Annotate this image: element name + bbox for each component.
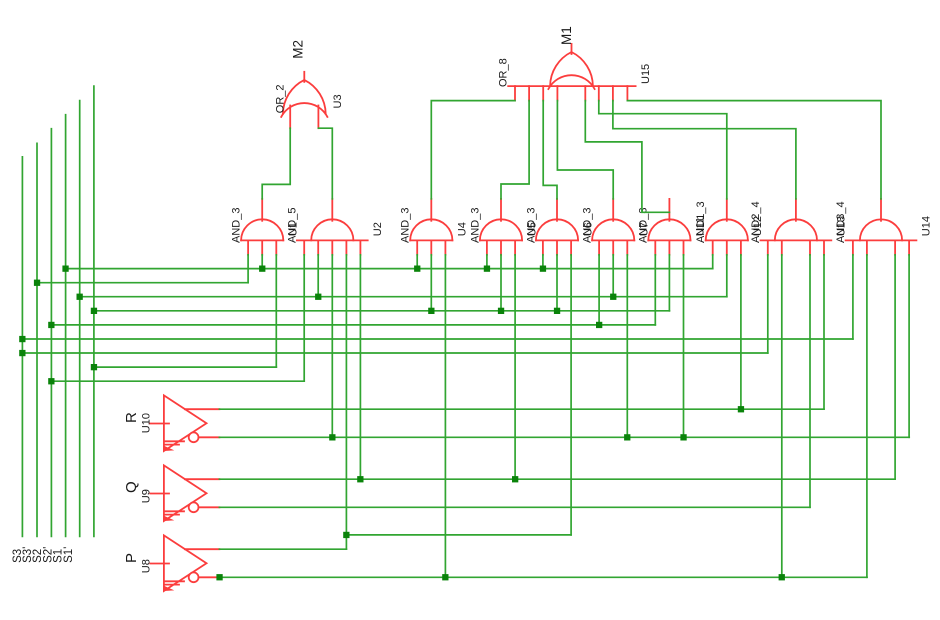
junction [484,266,490,272]
wire row 4 [94,310,670,312]
wire pin drop [500,255,502,311]
wire net R (direct) row [219,408,824,410]
AND gate U12 (AND1_3) [706,199,748,255]
junction [624,434,630,440]
wire U4 output to U15 pin1 [431,101,515,199]
svg-text:U8: U8 [141,559,153,573]
svg-text:U2: U2 [372,222,384,236]
junction [738,406,744,412]
junction [19,336,25,342]
wire row 2 [37,282,248,284]
wire U2 output to U3 pin2 [318,128,332,199]
junction [343,532,349,538]
wire U12 output to U15 pin6 [599,101,727,199]
wire: input rail S2' [65,115,67,537]
junction [779,574,785,580]
wire net P branch row [346,534,571,536]
wire pin drop [416,255,418,269]
svg-text:U3: U3 [332,94,344,108]
wire row 5 [51,324,655,326]
AND gate U5 (AND_3) [480,199,522,255]
junction [554,308,560,314]
wire pin drop [809,255,811,507]
AND gate U4 (AND_3) [410,199,452,255]
wire net Q' (inverted) row [219,506,810,508]
buffer/inverter U8 (input P) [150,535,219,591]
junction [610,294,616,300]
wire: input rail S1' [93,86,95,536]
input pin 2 of U3 [317,106,319,129]
input pin 8 of U15 [626,86,628,101]
wire: input rail S1 [79,101,81,537]
wire net R' (inverted) row [219,436,909,438]
svg-text:M2: M2 [290,40,305,59]
AND gate U6 (AND_3) [536,199,578,255]
wire pin drop [740,255,742,409]
wire U1 output to U3 pin1 [262,128,290,199]
wire pin drop [767,255,769,353]
junction [357,476,363,482]
wire pin drop [261,255,263,269]
svg-text:AND3_4: AND3_4 [835,201,847,243]
input pin 1 of U3 [289,106,291,129]
wire pin drop [852,255,854,339]
wire row 1 [66,268,713,270]
wire pin drop [654,255,656,325]
wire pin drop [444,255,446,578]
junction [540,266,546,272]
OR gate U3 (OR_2) [281,72,327,117]
svg-text:AND_3: AND_3 [525,208,537,243]
junction [62,266,68,272]
AND gate U14 (AND3_4) [846,199,917,255]
svg-text:U14: U14 [921,216,933,236]
junction [91,308,97,314]
wire pin drop [823,255,825,409]
junction [216,574,222,580]
buffer/inverter U10 (input R) [150,395,219,451]
wire pin drop [712,255,714,269]
wire pin drop [345,255,347,549]
wire row 8 [94,366,276,368]
svg-text:U10: U10 [141,413,153,433]
svg-text:AND2_4: AND2_4 [750,201,762,243]
wire U11 output to U15 pin5 [585,101,669,213]
wire pin drop [486,255,488,269]
wire pin drop [866,255,868,578]
junction [315,294,321,300]
svg-text:Q: Q [123,481,140,493]
junction [414,266,420,272]
svg-text:OR_2: OR_2 [274,84,286,113]
wire pin drop [683,255,685,437]
junction [680,434,686,440]
svg-text:U15: U15 [640,64,652,84]
wire pin drop [781,255,783,578]
wire U13 output to U15 pin7 [613,101,796,199]
wire pin drop [514,255,516,479]
input pin 6 of U15 [598,86,600,101]
svg-text:AND_5: AND_5 [286,208,298,243]
svg-text:U4: U4 [457,222,469,236]
AND gate U7 (AND_3) [592,199,634,255]
wire row 3 [80,296,727,298]
wire row 7 [22,352,767,354]
svg-text:P: P [123,553,140,563]
wire pin drop [275,255,277,367]
wire net P' (inverted) row [219,576,867,578]
input pin 4 of U15 [556,86,558,101]
wire: input rail S2 [50,129,52,537]
AND gate U13 (AND2_4) [761,199,832,255]
junction [498,308,504,314]
junction [91,364,97,370]
wire pin drop [317,255,319,297]
wire pin drop [894,255,896,479]
wire row 6 [22,338,853,340]
wire pin drop [612,255,614,297]
wire pin drop [430,255,432,311]
wire U14 output to U15 pin8 [627,101,881,199]
wire pin drop [359,255,361,479]
junction [48,322,54,328]
wire: input rail S3' [36,143,38,536]
wire pin drop [331,255,333,437]
svg-text:U9: U9 [141,489,153,503]
junction [48,378,54,384]
junction [512,476,518,482]
svg-text:R: R [123,412,140,423]
OR gate U15 (OR_8) [548,44,594,89]
buffer/inverter U9 (input Q) [150,465,219,521]
junction [596,322,602,328]
AND gate U1 (AND_3) [241,199,283,255]
input pin 5 of U15 [584,86,586,101]
svg-text:S1': S1' [63,547,75,563]
wire U6 output to U15 pin3 [543,101,557,199]
wire pin drop [908,255,910,437]
wire pin drop [598,255,600,325]
svg-text:AND1_3: AND1_3 [695,201,707,243]
wire pin drop [303,255,305,381]
wire pin drop [668,255,670,311]
junction [329,434,335,440]
AND gate U2 (AND_5) [297,199,368,255]
wire net P (direct) row [219,548,346,550]
input pin 7 of U15 [612,86,614,101]
AND gate U11 (AND_3) [648,199,690,255]
input pin 2 of U15 [528,86,530,101]
junction [19,350,25,356]
junction [428,308,434,314]
svg-text:AND_3: AND_3 [400,208,412,243]
wire pin drop [542,255,544,269]
input pin 1 of U15 [514,86,516,101]
junction [259,266,265,272]
svg-text:AND_3: AND_3 [582,208,594,243]
wire pin drop [570,255,572,535]
wire row 9 [51,380,304,382]
wire U7 output to U15 pin4 [557,101,613,199]
svg-text:M1: M1 [559,26,574,45]
wire pin drop [726,255,728,297]
wire: input rail S3 [21,157,23,537]
junction [442,574,448,580]
svg-text:OR_8: OR_8 [498,58,510,87]
svg-text:AND_3: AND_3 [231,208,243,243]
pin bar of U15 [508,85,635,87]
wire pin drop [556,255,558,311]
svg-text:AND_3: AND_3 [469,208,481,243]
wire pin drop [247,255,249,283]
wire net Q (direct) row [219,478,895,480]
wire U5 output to U15 pin2 [501,101,529,199]
wire pin drop [626,255,628,437]
junction [77,294,83,300]
input pin 3 of U15 [542,86,544,101]
junction [34,280,40,286]
